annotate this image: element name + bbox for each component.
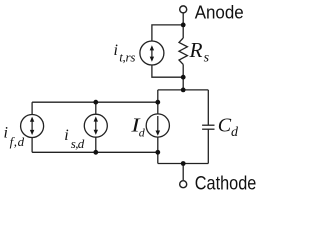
svg-text:i: i [64,127,68,144]
svg-text:s,d: s,d [71,136,85,151]
svg-text:d: d [231,125,239,140]
svg-text:C: C [218,115,232,137]
svg-text:d: d [139,126,146,140]
svg-text:t,rs: t,rs [119,50,135,65]
svg-text:i: i [4,125,8,142]
svg-text:Anode: Anode [195,3,244,23]
svg-text:Cathode: Cathode [195,173,256,194]
svg-text:R: R [188,38,202,62]
svg-text:f,d: f,d [10,134,25,149]
svg-text:s: s [204,51,210,66]
svg-text:i: i [114,42,118,59]
